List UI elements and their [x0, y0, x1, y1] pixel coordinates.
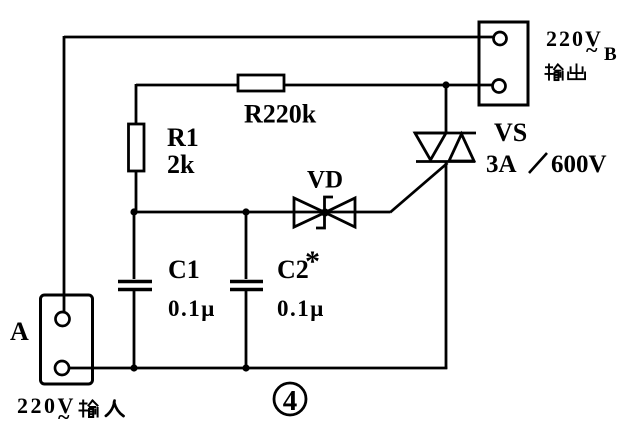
svg-text:600V: 600V [551, 151, 607, 178]
svg-text:0.1μ: 0.1μ [168, 296, 216, 321]
svg-text:C2: C2 [277, 255, 309, 284]
svg-text:2k: 2k [167, 150, 195, 179]
svg-text:VD: VD [307, 167, 343, 194]
svg-text:0.1μ: 0.1μ [277, 296, 325, 321]
svg-text:~: ~ [586, 37, 598, 62]
svg-text:~: ~ [58, 404, 70, 429]
svg-text:4: 4 [283, 385, 298, 417]
svg-text:A: A [10, 317, 29, 346]
svg-text:VS: VS [494, 118, 527, 147]
svg-text:3A: 3A [486, 151, 517, 178]
svg-text:C1: C1 [168, 255, 200, 284]
svg-text:B: B [604, 44, 617, 65]
svg-text:R220k: R220k [244, 100, 317, 129]
svg-text:R1: R1 [167, 123, 199, 152]
svg-text:*: * [305, 245, 320, 278]
